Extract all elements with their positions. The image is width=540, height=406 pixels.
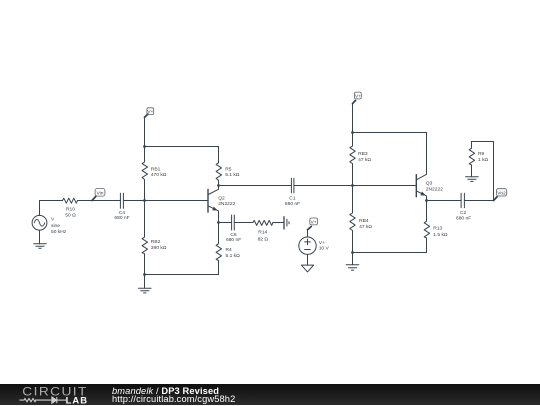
node junction C4/RB1/RB2/base [143,199,146,202]
wire R10 to C4 [78,200,121,202]
node collector Q2 [217,184,220,187]
wire C1 to node stage2 [294,185,353,187]
wire node to ground stage1 [144,275,146,289]
svg-text:C1: C1 [289,196,296,202]
ground triangle below V2 [301,265,313,272]
svg-text:50 kHz: 50 kHz [51,229,67,235]
svg-text:V+: V+ [311,219,317,225]
flag V+ stage2 [353,92,362,104]
wire V2 bottom to ground [307,254,309,265]
resistor RB4 [350,186,373,253]
wire flag to V2 [307,230,309,237]
node emitter Q2 [217,221,220,224]
voltage source V1 sine [32,215,67,235]
svg-text:470 kΩ: 470 kΩ [151,172,167,178]
wire base Q2 [145,200,209,202]
wire R4 bottom [218,261,220,275]
svg-text:47 kΩ: 47 kΩ [358,157,371,163]
resistor R13 [424,201,448,239]
flag V+ stage1 [145,108,154,118]
node emitter Q3 [425,199,428,202]
wire emitter Q3 to C2 [427,200,462,202]
svg-text:RB3: RB3 [358,151,368,157]
svg-text:50 Ω: 50 Ω [65,212,76,218]
ground sideways right of R14 [284,217,289,229]
svg-text:1 kΩ: 1 kΩ [478,157,489,163]
flag V+ supply [308,218,318,230]
resistor R10 [63,198,78,218]
wire V1 top to R10 [40,201,63,216]
wire bottom rail stage1 [145,274,219,276]
svg-text:82 Ω: 82 Ω [258,237,269,243]
wire C6 to R14 [234,222,253,224]
wire node to ground stage2 [352,253,354,265]
node flag Vo2 [494,189,507,201]
wire top rail stage2 [353,132,427,134]
svg-text:R4: R4 [226,247,233,253]
svg-text:5.1 kΩ: 5.1 kΩ [225,172,240,178]
ground below R9 [466,177,479,182]
svg-text:390 kΩ: 390 kΩ [151,245,167,251]
svg-text:R14: R14 [258,230,267,236]
svg-text:R13: R13 [433,225,442,231]
node rail stage2 [351,131,354,134]
svg-text:sine: sine [51,223,60,229]
svg-text:V: V [51,217,55,223]
capacitor C1 [285,178,300,207]
ground stage1 [139,288,152,293]
wire C2 to Vo2 riser [464,142,493,201]
svg-text:Q3: Q3 [426,180,433,186]
transistor Q3 2N2222 [416,133,443,201]
capacitor C6 [226,215,241,243]
capacitor C4 [114,193,129,221]
wire emitter Q2 to C6 [219,222,232,224]
svg-text:V+: V+ [147,109,153,115]
footer bar [0,384,540,406]
node base divider stage2 [351,184,354,187]
svg-text:680 nF: 680 nF [114,215,129,221]
svg-text:680 nF: 680 nF [456,215,471,221]
voltage source V2 10V [299,237,330,254]
svg-text:R5: R5 [225,166,232,172]
resistor RB1 [142,147,167,201]
svg-text:2N2222: 2N2222 [218,201,235,207]
node ground junction stage1 [143,273,146,276]
wire V+ flag down to rail node [144,117,146,146]
wire top rail stage1 [145,146,219,148]
svg-text:LAB: LAB [66,394,89,405]
resistor R5 [216,147,240,186]
svg-text:C2: C2 [460,210,467,216]
resistor R14 [253,220,273,242]
transistor Q2 2N2222 [208,186,236,223]
svg-text:680 nF: 680 nF [285,201,300,207]
svg-text:47 kΩ: 47 kΩ [359,224,372,230]
svg-text:RB1: RB1 [151,166,161,172]
wire base Q3 [353,185,417,187]
node ground junction stage2 [351,251,354,254]
node flag Vin [92,189,105,201]
resistor RB3 [350,133,372,186]
svg-text:1.5 kΩ: 1.5 kΩ [433,232,448,238]
svg-text:Q2: Q2 [218,196,225,202]
svg-text:R10: R10 [66,207,75,213]
wire R14 to ground [273,222,284,224]
svg-text:V+: V+ [319,240,325,246]
svg-text:680 nF: 680 nF [226,237,241,243]
resistor R9 [469,142,488,177]
svg-text:10 V: 10 V [319,245,330,251]
CircuitLab logo [0,384,110,406]
svg-text:V+: V+ [355,93,361,99]
capacitor C2 [456,193,471,221]
svg-text:RB4: RB4 [359,218,369,224]
wire bottom rail stage2 [353,238,427,253]
resistor R4 [216,223,240,275]
resistor RB2 [142,201,167,275]
ground below V1 [34,244,47,249]
wire C4 to node [123,200,144,202]
svg-text:Vin: Vin [97,190,104,196]
svg-text:5.1 kΩ: 5.1 kΩ [226,253,241,259]
wire V+ flag stage2 down [352,104,354,133]
svg-text:C6: C6 [230,232,237,238]
svg-text:R9: R9 [478,151,485,157]
wire V1 bottom to ground [39,230,41,244]
svg-text:Vo2: Vo2 [497,191,506,197]
svg-text:RB2: RB2 [151,239,161,245]
ground stage2 [346,265,359,270]
node rail stage1 [143,145,146,148]
wire Q2 collector to C1 [219,185,292,187]
svg-text:2N2222: 2N2222 [426,187,443,193]
